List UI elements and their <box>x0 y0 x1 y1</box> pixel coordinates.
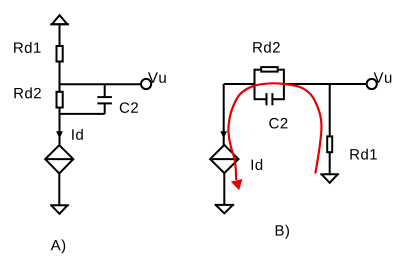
current direction arrow Id <box>56 131 63 138</box>
label C2 <box>269 118 287 129</box>
wire parallel frame right vertical <box>283 69 285 101</box>
ground <box>320 174 339 183</box>
label Rd2 <box>14 87 40 98</box>
label A) <box>51 239 65 253</box>
wire main left <box>224 83 255 85</box>
label Id <box>252 159 263 170</box>
resistor Rd1 <box>327 136 332 152</box>
label Rd1 <box>14 42 40 53</box>
wire capacitor bottom return <box>60 113 105 115</box>
capacitor C2 <box>255 93 284 105</box>
wire parallel frame left vertical <box>254 69 256 101</box>
wire right branch down <box>329 84 331 136</box>
resistor Rd2 <box>57 92 63 108</box>
wire Rd1 to Rd2 <box>59 62 61 92</box>
label B) <box>276 225 289 239</box>
annotation red current loop arrow <box>228 83 321 190</box>
wire Rd2 to current source <box>59 108 61 147</box>
resistor Rd2 (horizontal) <box>261 67 278 72</box>
label Vu <box>374 72 392 82</box>
label Rd2 <box>253 42 279 53</box>
label Id <box>72 129 83 140</box>
wire main right to Vu <box>284 83 367 85</box>
current direction arrow Id <box>220 131 227 138</box>
wire current source to ground <box>58 174 60 206</box>
wire top branch left <box>255 69 262 71</box>
power supply symbol VCC (up triangle) <box>50 15 69 24</box>
terminal Vu (open circle) <box>141 79 151 89</box>
wire top branch right <box>278 69 284 71</box>
wire Rd1 to ground <box>329 152 331 174</box>
ground <box>50 205 69 214</box>
capacitor C2 <box>97 84 112 114</box>
ground <box>215 205 235 214</box>
label Rd1 <box>350 149 376 160</box>
resistor Rd1 <box>57 46 63 62</box>
wire current source to ground <box>223 173 225 205</box>
current source (diamond) <box>210 145 238 173</box>
label Vu <box>148 72 166 82</box>
current source (diamond) <box>45 145 73 173</box>
wire VCC to Rd1 <box>59 24 61 46</box>
terminal Vu (open circle) <box>367 79 377 89</box>
wire left branch down <box>223 84 225 146</box>
label C2 <box>120 102 138 113</box>
node output wire to Vu <box>60 83 141 85</box>
